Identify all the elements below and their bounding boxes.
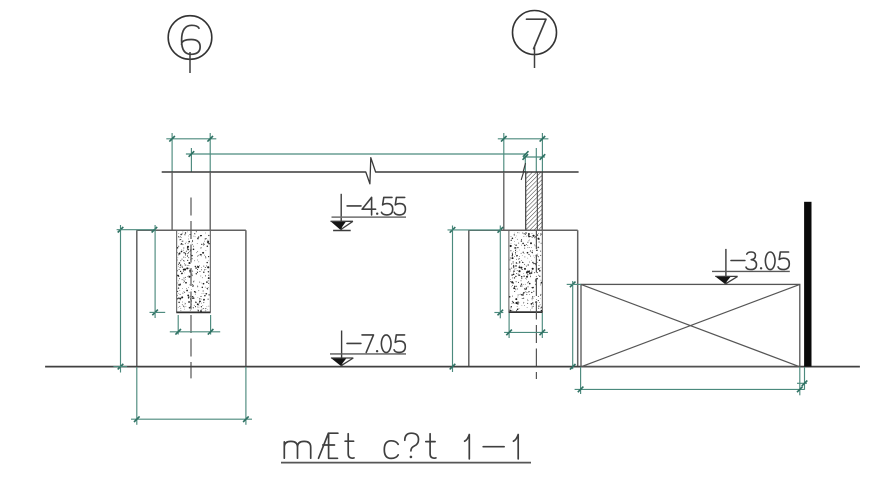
break symbol 2 [521,164,526,180]
label -7.05 [347,342,361,344]
extension line above pedestal 7 right [541,133,543,172]
column 7 width dimension [504,331,548,333]
extension line above pedestal 6 left [171,133,173,172]
hatched wall section 7 [526,172,543,230]
footing 7 right side [577,230,579,366]
vert dimension line pier 7 height [452,226,454,373]
small bar-gap dimension [797,382,807,384]
level marker -7.05 [341,331,343,367]
dim bar at footing 7 top level [448,229,502,231]
digit 1 first [465,435,470,459]
vert dimension line pier 6 height [120,225,122,373]
pedestal 6 left edge [171,172,173,230]
digit 7 [527,19,547,49]
break symbol 1 [366,158,376,184]
wall face extension pedestal 7 [524,157,526,172]
footing 6 width dimension [131,418,252,420]
dimension line over pedestal 7 [498,138,549,140]
centreline extension pedestal 6 [190,148,192,172]
centreline pier 7 (dashed) [535,231,537,379]
level -4.55 underline [332,216,407,218]
pedestal 6 right edge [209,172,211,230]
extension line above pedestal 7 left [503,133,505,172]
duct bank width extension right [799,367,801,395]
grid bubble 7 [513,11,557,55]
stipple 7 right border [541,231,543,312]
stipple 6 right border [209,231,211,312]
vert dimension line column 7 depth [499,226,501,319]
concrete column (stipple) 7 [509,232,542,311]
letter t 1 [345,434,354,459]
level -4.55 base bar [333,230,351,232]
letter t 2 [426,434,436,459]
level -7.05 underline [330,353,406,355]
footing 6 top [137,229,246,231]
concrete column (stipple) 6 [177,231,210,312]
extra extension at wall bar [804,367,806,390]
centreline pier 6 (dashed) [190,198,192,379]
letter m [284,441,310,458]
centreline extension pedestal 7 [535,148,537,172]
level marker -4.55 [340,194,342,230]
footing 6 right side [245,230,247,366]
duct bank box [581,284,800,366]
span dimension line centreline 6 to wall 7 [186,153,526,155]
dim bar at stipple 7 bottom level [494,312,503,314]
dim bar at stipple 6 bottom level [150,311,166,313]
ground-level tick bar left [113,366,127,368]
label -3.05 [731,260,745,262]
letter AE [319,433,338,458]
duct bank diagonal 2 [581,284,800,366]
column 6 width dimension [170,331,220,333]
thick wall (filled) [804,202,811,367]
letter ? [405,433,419,451]
dim bar at footing 6 top level [117,229,156,231]
duct bank width dimension [575,388,805,390]
stipple 7 left border [508,231,510,312]
pedestal 7 left edge [503,172,505,230]
stipple 6 left border [176,231,178,312]
dimension line over pedestal 6 [166,138,216,140]
label -4.55 [347,205,361,207]
duct bank width extension left [580,367,582,394]
cut line (structure above, broken) [162,171,366,173]
title underline [281,462,531,464]
bubble 6 leader line [189,52,191,73]
footing 6 left side [136,230,138,366]
ground line [45,366,860,368]
column 7 width extension left [508,313,510,338]
dim bar at duct bank top [567,283,581,285]
wall right edge [541,172,543,230]
wall inner line [536,172,538,230]
footing 7 left side [468,230,470,366]
column 7 width extension right [541,313,543,338]
letter c [384,441,398,459]
level -3.05 underline [712,270,790,272]
grid bubble 6 [168,16,212,60]
column 6 width extension right [210,315,212,335]
vert dimension line column 6 depth [154,225,156,318]
footing 6 width extension right [245,367,247,425]
digit 6 [182,25,201,54]
wall left edge [525,172,527,230]
column 6 width extension left [177,315,179,335]
stipple 7 bottom bar [509,311,543,313]
duct bank diagonal 1 [581,284,800,366]
digit 1 second [513,435,518,459]
footing 7 top [469,229,578,231]
duct bank height dimension [572,281,574,369]
extension line above pedestal 6 right [209,133,211,172]
dash [483,446,504,448]
level marker -3.05 [725,249,727,284]
footing 6 width extension left [136,367,138,425]
stipple 6 bottom bar [176,311,210,313]
wall width dimension line [523,156,545,158]
bubble 7 leader line [534,47,536,68]
